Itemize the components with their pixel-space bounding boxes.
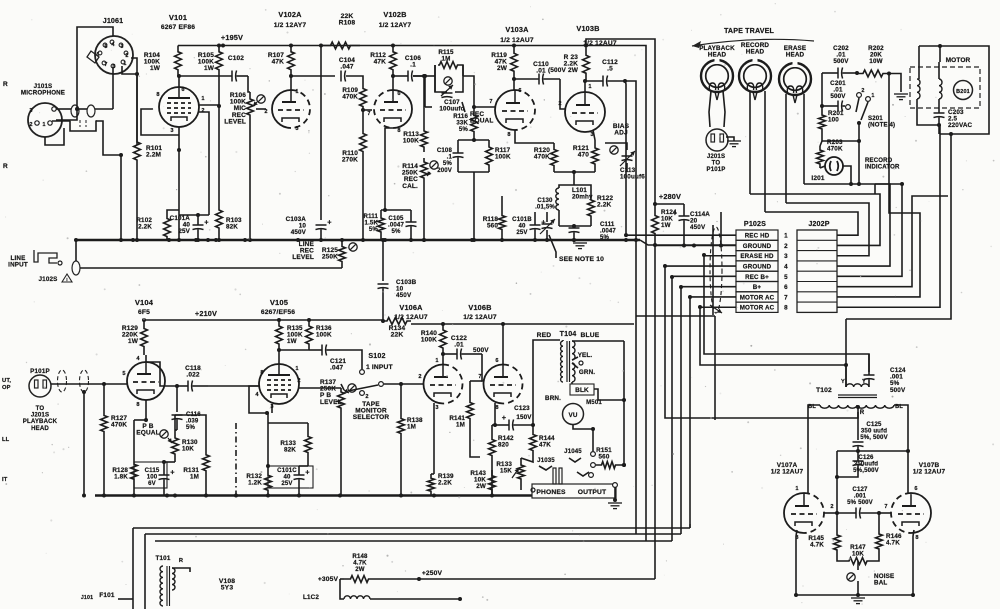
wire corner	[874, 184, 876, 194]
wire to C116	[176, 386, 178, 412]
svg-text:C102: C102	[228, 55, 244, 62]
ground see note	[573, 242, 587, 244]
svg-text:2: 2	[418, 374, 421, 380]
wire V103B grid	[560, 79, 565, 109]
junction	[417, 577, 421, 581]
wire down to R138	[400, 384, 402, 417]
junction	[307, 318, 311, 322]
svg-text:J1035: J1035	[537, 457, 555, 464]
T104 sec lower	[572, 363, 575, 382]
wire C121 to S102	[340, 350, 362, 369]
label BLK box	[570, 384, 594, 395]
junction R105 bottom	[217, 104, 221, 108]
capacitor C104	[340, 71, 342, 82]
junction	[653, 202, 657, 206]
wire to V103A grid	[474, 106, 496, 108]
cable arrow	[710, 305, 722, 313]
wire nest row3 to erase head	[786, 203, 869, 256]
svg-text:8: 8	[507, 132, 510, 138]
svg-text:HEAD: HEAD	[31, 425, 49, 432]
junction	[361, 238, 365, 242]
svg-text:8: 8	[260, 370, 263, 376]
svg-text:2: 2	[125, 53, 128, 59]
w	[431, 473, 434, 475]
wire C104 to R109	[346, 76, 363, 85]
svg-text:5%,500V: 5%,500V	[853, 467, 880, 474]
resistor R135 100K	[276, 320, 283, 350]
wire to ground	[889, 74, 901, 93]
junction	[391, 44, 395, 48]
resistor R113 100K	[421, 126, 428, 152]
junction	[849, 182, 853, 186]
wire to tube grid	[95, 108, 113, 110]
jack spring	[569, 458, 581, 462]
wire	[299, 465, 308, 467]
w	[340, 578, 344, 580]
wire row4 GROUND left	[665, 265, 736, 267]
capacitor C201	[837, 101, 839, 112]
junction row6	[679, 285, 683, 289]
svg-text:LEVEL: LEVEL	[224, 118, 246, 125]
connector ovals	[71, 105, 79, 117]
capacitor C101A	[193, 224, 204, 226]
junction	[877, 511, 881, 515]
wire motor bottom	[917, 108, 939, 125]
wire record lead 1	[749, 91, 751, 194]
resistor R151 560	[596, 462, 621, 469]
svg-text:47K: 47K	[374, 59, 387, 66]
svg-text:L1C2: L1C2	[303, 594, 319, 601]
wire J1061 top loop	[77, 27, 113, 95]
w	[562, 340, 564, 341]
svg-text:7: 7	[489, 99, 492, 105]
trimmer arrow	[441, 85, 453, 96]
junction	[277, 318, 281, 322]
svg-text:150V: 150V	[516, 414, 532, 421]
svg-text:100: 100	[828, 117, 839, 124]
T104 sec upper	[572, 341, 575, 360]
svg-text:YEL.: YEL.	[578, 352, 593, 359]
svg-text:270K: 270K	[342, 157, 358, 164]
capacitor C112	[602, 76, 604, 87]
wiper line	[341, 384, 344, 390]
resistor R123 2.2K	[583, 48, 590, 82]
wire	[574, 185, 591, 190]
wire C202 left	[821, 73, 823, 106]
svg-text:.01,5%: .01,5%	[535, 204, 555, 211]
wire rail ext right	[586, 46, 646, 542]
ground osc	[851, 597, 865, 599]
svg-text:100uuf6: 100uuf6	[620, 174, 645, 181]
svg-text:7: 7	[104, 62, 107, 68]
wire row8 MOTOR AC left	[700, 306, 736, 308]
wire jack to bus	[75, 240, 77, 261]
svg-text:1M: 1M	[407, 424, 416, 431]
contact phones	[531, 488, 535, 492]
svg-text:22K: 22K	[391, 332, 404, 339]
junction	[177, 148, 181, 152]
wire BLUE output line x624	[623, 341, 625, 465]
junction	[458, 597, 462, 601]
w	[340, 590, 344, 599]
svg-text:82K: 82K	[226, 224, 238, 231]
capacitor C130 variable	[542, 223, 553, 225]
wire C106 out	[413, 75, 425, 77]
svg-text:450V: 450V	[291, 229, 307, 236]
svg-text:8: 8	[397, 128, 400, 134]
wire to bus	[473, 172, 475, 240]
resistor R134 22K	[383, 318, 411, 325]
wire to R101	[136, 64, 138, 145]
junction	[248, 238, 252, 242]
svg-text:560: 560	[599, 454, 610, 461]
wire bundle x672 row5 down	[671, 277, 673, 541]
svg-text:(500V: (500V	[548, 67, 567, 74]
resistor R122 2.2K	[588, 190, 595, 226]
junction	[856, 449, 860, 453]
svg-text:1W: 1W	[150, 65, 161, 72]
wire plate	[513, 79, 515, 90]
junction	[545, 238, 549, 242]
junction	[624, 233, 628, 237]
wire V103A cathode	[515, 130, 554, 143]
wire BL left down	[808, 405, 820, 488]
w	[796, 530, 797, 536]
junction	[692, 243, 696, 247]
switch arm	[856, 98, 859, 112]
svg-text:+280V: +280V	[659, 192, 681, 201]
wire row5 REC B+ left	[672, 275, 736, 277]
svg-text:GRN.: GRN.	[579, 369, 595, 376]
capacitor C105	[406, 221, 417, 223]
wire lamp	[820, 166, 825, 168]
capacitor C115	[159, 474, 170, 476]
capacitor C111	[569, 227, 580, 229]
wire grid to R106 wiper	[256, 108, 266, 110]
wire head bus	[804, 183, 902, 185]
wire par top	[381, 209, 411, 211]
svg-text:470K: 470K	[342, 94, 358, 101]
T104 core 2	[569, 341, 571, 382]
junction	[512, 77, 516, 81]
svg-text:TAPE TRAVEL: TAPE TRAVEL	[724, 27, 775, 35]
svg-text:IT: IT	[2, 477, 8, 483]
svg-text:+: +	[541, 218, 545, 227]
resistor R110 270K	[360, 110, 367, 175]
wire x715 down	[714, 316, 716, 420]
wire to R132	[267, 413, 269, 470]
svg-text:10K: 10K	[182, 446, 194, 453]
svg-text:7: 7	[784, 294, 788, 301]
svg-text:2: 2	[264, 109, 267, 115]
wire V107B cathode down	[912, 536, 914, 595]
capacitor C108	[453, 152, 464, 154]
wire bundle x700 row8 to T102 Y left	[700, 307, 846, 387]
wire	[56, 109, 77, 120]
wire R112 to plate	[392, 76, 394, 90]
T101 secondary	[172, 568, 175, 590]
pot R114 REC CAL	[421, 158, 428, 182]
switch contact	[846, 105, 851, 110]
wire V107A plate	[807, 488, 809, 493]
wire R107 to plate	[290, 76, 292, 90]
svg-text:3: 3	[29, 108, 32, 114]
wire par top	[458, 139, 489, 141]
wire cath	[593, 130, 595, 140]
junction	[175, 384, 179, 388]
junction	[196, 213, 200, 217]
svg-text:1: 1	[295, 89, 298, 95]
svg-text:200V: 200V	[437, 167, 453, 174]
connector ovals P101P	[58, 370, 67, 392]
ground plug	[727, 140, 741, 142]
w	[339, 579, 341, 590]
wire pin3	[271, 404, 273, 413]
svg-text:ERASE HD: ERASE HD	[740, 253, 774, 260]
junction	[441, 322, 445, 326]
svg-text:+305V: +305V	[318, 576, 339, 583]
svg-text:1: 1	[201, 96, 204, 102]
svg-text:REC HD: REC HD	[745, 233, 770, 240]
resistor R111 1.5K	[378, 210, 385, 240]
wire bundle x636 from C112 junction	[625, 81, 636, 534]
svg-text:B201: B201	[956, 89, 970, 95]
svg-text:OUTPUT: OUTPUT	[578, 489, 607, 496]
svg-text:+: +	[305, 468, 309, 477]
+210V rail	[144, 319, 383, 321]
svg-text:2W: 2W	[355, 566, 365, 573]
svg-text:15K: 15K	[500, 468, 512, 475]
capacitor C123	[508, 420, 510, 431]
pot knob R106	[257, 95, 265, 103]
junction	[74, 238, 78, 242]
T101 core2	[169, 566, 171, 606]
wire cathode down	[178, 127, 180, 150]
resistor R202 20K	[857, 70, 889, 77]
wire to osc tank	[573, 172, 575, 185]
svg-text:J102S: J102S	[39, 276, 58, 283]
wire nest row5	[837, 184, 902, 276]
pot knob R115	[444, 77, 452, 85]
svg-text:3: 3	[120, 44, 123, 50]
svg-text:GROUND: GROUND	[743, 264, 772, 271]
junction	[82, 390, 86, 394]
resistor R127 470K	[101, 412, 108, 435]
T101 primary	[160, 566, 163, 606]
resistor R109 470K	[360, 85, 367, 110]
w	[521, 458, 533, 462]
resistor R108 22K	[321, 42, 360, 49]
junction row4	[663, 264, 667, 268]
junction	[340, 238, 344, 242]
wire P101P to V104 grid	[51, 383, 127, 385]
svg-text:PHONES: PHONES	[536, 489, 566, 496]
svg-text:HEAD: HEAD	[708, 52, 727, 59]
resistor R121 470	[592, 140, 599, 172]
resistor R141 1M	[467, 381, 474, 440]
connector J101S	[28, 103, 62, 137]
w	[520, 486, 522, 490]
junction	[835, 511, 839, 515]
wire	[574, 171, 595, 173]
wire plate V106B	[502, 324, 504, 365]
resistor R118 560	[499, 205, 506, 240]
wire fuse	[118, 598, 133, 600]
resistor R145 4.7K	[834, 529, 841, 556]
svg-text:R108: R108	[339, 20, 356, 27]
svg-text:6267/EF56: 6267/EF56	[261, 309, 295, 316]
wire R106 bottom to bus	[249, 122, 251, 240]
svg-text:V106B: V106B	[468, 303, 491, 312]
resistor R130 10K	[172, 430, 179, 462]
resistor R104 100K	[175, 46, 182, 77]
resistor R112 47K	[390, 46, 397, 77]
svg-text:100K: 100K	[421, 337, 437, 344]
wire V105 pin2	[299, 387, 341, 389]
svg-text:500V: 500V	[890, 387, 906, 394]
junction	[409, 238, 413, 242]
junction	[319, 238, 323, 242]
svg-text:7: 7	[478, 374, 481, 380]
wire R131 top	[175, 415, 206, 430]
wire row1 REC HD left	[626, 234, 736, 236]
wire grid A column	[836, 451, 838, 513]
junction	[135, 238, 139, 242]
wire bundle x655 lower	[654, 245, 656, 579]
capacitor C113 variable	[622, 155, 633, 157]
svg-text:BRN.: BRN.	[545, 395, 561, 402]
pot R137 250K PB LEVEL	[338, 388, 345, 412]
bus jog to row2	[640, 240, 736, 245]
svg-text:+: +	[502, 413, 506, 422]
svg-text:1: 1	[871, 93, 874, 99]
psu box corner right	[689, 524, 691, 528]
wire V106B cathode	[494, 403, 496, 425]
wire V106A cathode	[433, 403, 435, 474]
svg-text:250K: 250K	[322, 254, 338, 261]
mech link dashdot	[235, 423, 237, 496]
svg-text:2.2K: 2.2K	[597, 202, 611, 209]
svg-text:2.2M: 2.2M	[146, 152, 161, 159]
tube V106A	[424, 365, 444, 404]
svg-text:2.2K: 2.2K	[438, 480, 452, 487]
wire	[558, 210, 560, 226]
svg-text:F101: F101	[99, 592, 115, 599]
wire par bottom	[458, 171, 489, 173]
resistor R148 4.7K	[344, 576, 375, 583]
svg-text:SEE NOTE 10: SEE NOTE 10	[559, 256, 604, 263]
wire erase lead 1	[785, 94, 787, 203]
svg-text:(NOTE 4): (NOTE 4)	[868, 122, 895, 129]
junction	[906, 449, 910, 453]
wiper arrow	[168, 438, 172, 443]
junction row8	[698, 305, 702, 309]
junction	[844, 363, 848, 367]
wire R141 bottom	[470, 440, 480, 457]
w	[175, 429, 177, 431]
jack spring3	[539, 466, 552, 470]
junction	[531, 423, 535, 427]
wire wiper	[857, 561, 859, 570]
wire C106 junction down	[423, 76, 425, 126]
rheostat R133 15K	[518, 458, 525, 486]
junction	[423, 74, 427, 78]
svg-text:+: +	[327, 218, 331, 227]
w	[837, 556, 842, 561]
wire grid A down	[836, 513, 838, 529]
svg-text:.01: .01	[536, 68, 546, 75]
svg-text:1: 1	[588, 84, 591, 90]
svg-text:MOTOR AC: MOTOR AC	[740, 305, 775, 312]
w	[614, 487, 616, 500]
junction R105 top	[217, 44, 221, 48]
svg-text:BAL: BAL	[874, 580, 887, 587]
svg-text:I201: I201	[811, 175, 824, 182]
wire corner	[76, 95, 78, 109]
wire grid B	[879, 512, 891, 514]
svg-text:V102B: V102B	[383, 10, 406, 19]
tape travel arc arrow	[692, 39, 814, 46]
cable marker dashed	[710, 227, 722, 313]
wire erase lead 2	[803, 94, 805, 184]
contact yel	[579, 361, 583, 365]
wire C103B top	[382, 240, 384, 281]
wire switch to bus	[858, 141, 860, 184]
svg-text:V102A: V102A	[278, 10, 302, 19]
wire R120 join	[554, 171, 574, 173]
junction	[472, 238, 476, 242]
junction	[383, 238, 387, 242]
svg-text:470K: 470K	[534, 154, 550, 161]
svg-text:1/2 12AY7: 1/2 12AY7	[274, 22, 307, 29]
capacitor C103B	[378, 283, 389, 285]
wire BLUE corner	[598, 340, 624, 342]
wire RED lead	[533, 340, 560, 425]
svg-text:3: 3	[784, 253, 788, 260]
motor winding 1	[917, 79, 920, 99]
osc bottom rail	[796, 594, 913, 596]
svg-text:4.7K: 4.7K	[886, 540, 900, 547]
svg-text:1: 1	[435, 358, 438, 364]
junction	[399, 382, 403, 386]
svg-text:1 INPUT: 1 INPUT	[366, 364, 394, 371]
resistor R124 10K	[652, 204, 659, 245]
capacitor C107 variable	[442, 92, 453, 94]
svg-text:BLK: BLK	[575, 387, 589, 394]
svg-text:82K: 82K	[284, 447, 296, 454]
junction R151 end	[622, 463, 626, 467]
junction	[196, 238, 200, 242]
junction	[82, 494, 86, 498]
tube V102B	[393, 90, 412, 128]
wire V101 pin2 fb	[199, 112, 209, 215]
svg-text:+: +	[204, 218, 208, 227]
resistor R105 100K	[216, 46, 223, 77]
svg-text:P102S: P102S	[744, 220, 766, 228]
capacitor C122	[456, 349, 458, 360]
svg-text:1.8K: 1.8K	[114, 474, 128, 481]
svg-text:2: 2	[784, 243, 788, 250]
svg-text:5%: 5%	[369, 226, 379, 233]
box R128 C115	[134, 462, 167, 488]
junction	[835, 475, 839, 479]
junction R tap	[856, 405, 860, 409]
psu box inner	[144, 534, 146, 609]
wire J1061 pin6 down	[112, 67, 114, 88]
junction	[900, 182, 904, 186]
junction	[572, 224, 576, 228]
resistor R132 1.2K	[265, 470, 272, 496]
